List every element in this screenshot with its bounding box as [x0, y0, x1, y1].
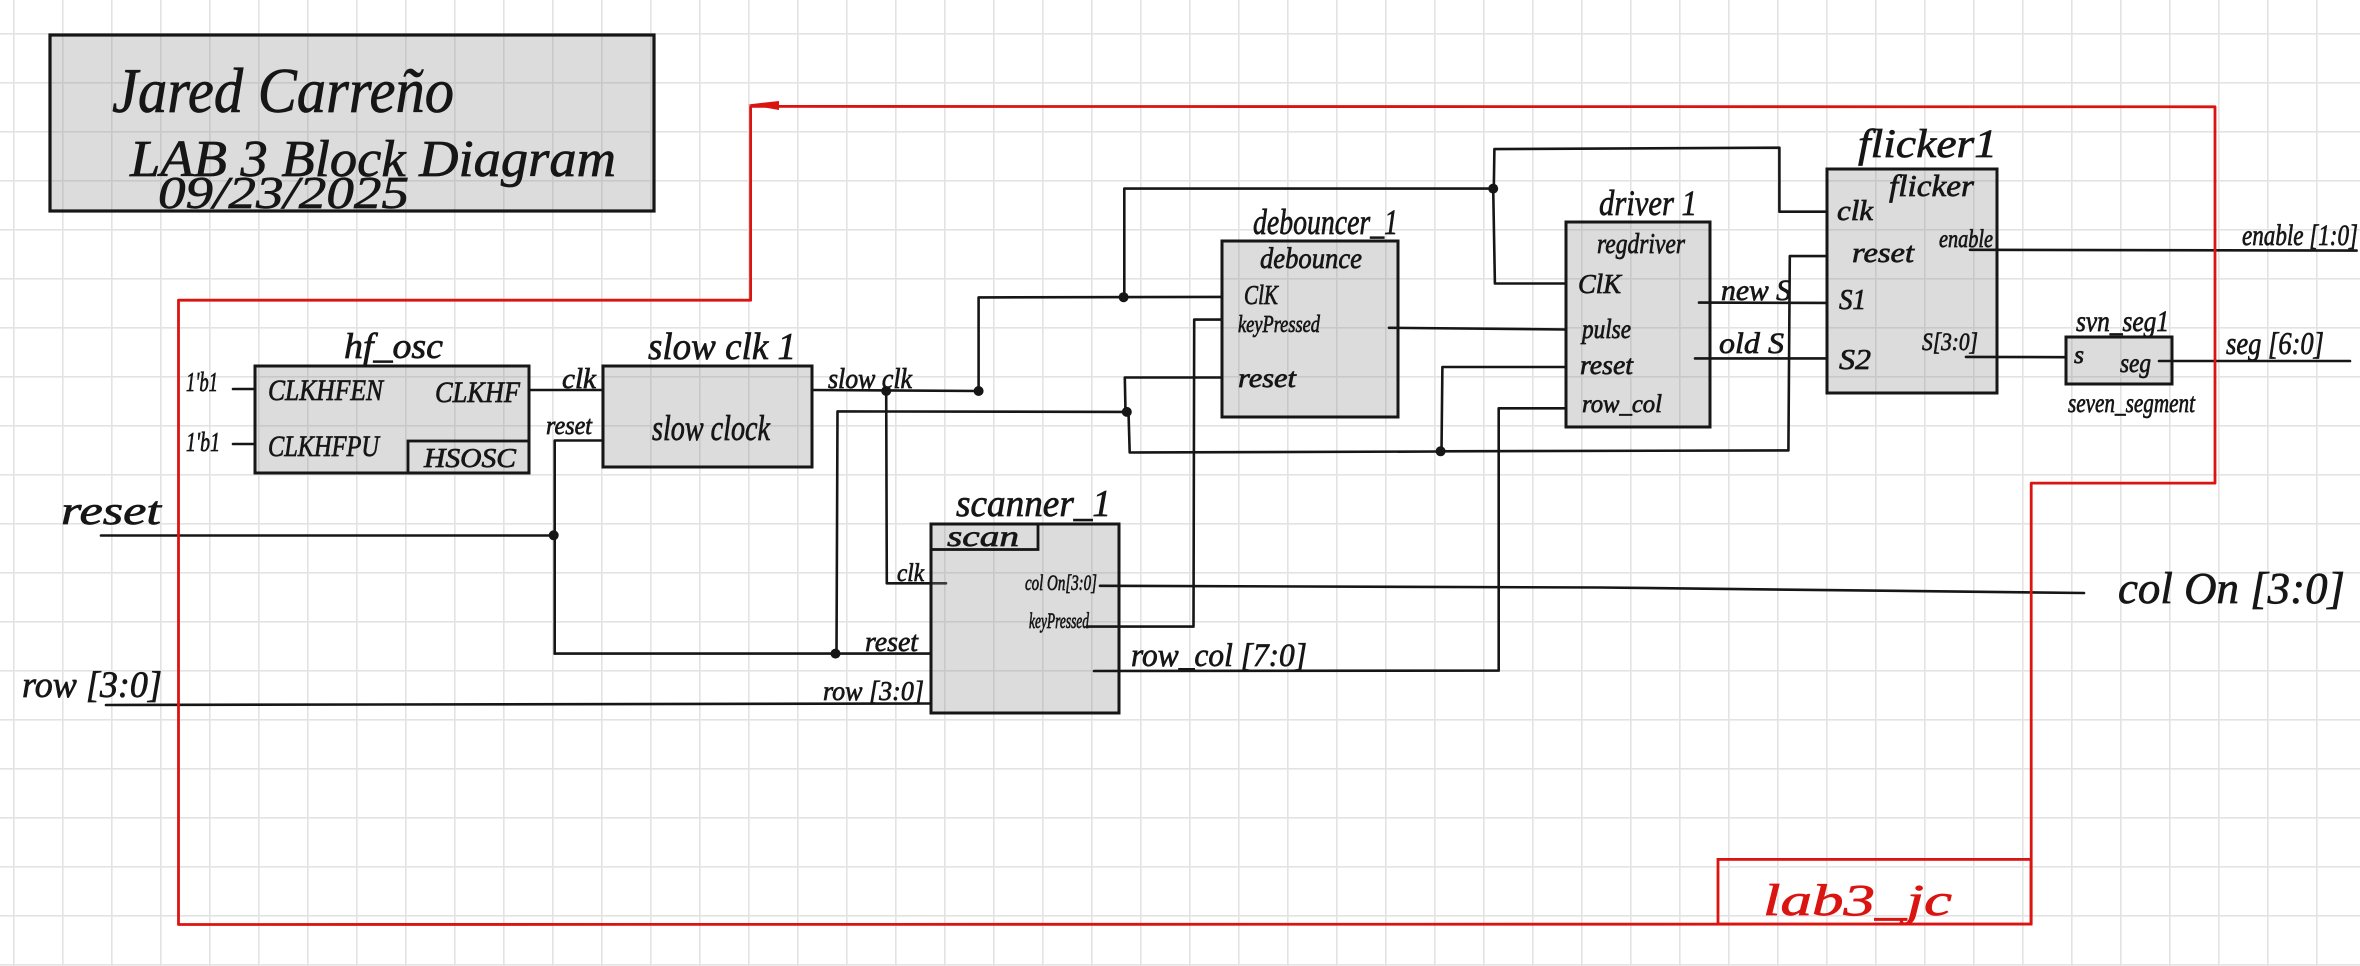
- wire slow clk up to debouncer clk: [979, 297, 1222, 391]
- svg-text:CLKHFPU: CLKHFPU: [268, 430, 381, 463]
- svg-text:clk: clk: [897, 560, 925, 587]
- svg-text:svn_seg1: svn_seg1: [2076, 305, 2169, 338]
- svg-text:old S: old S: [1719, 327, 1784, 360]
- svg-text:debouncer_1: debouncer_1: [1253, 202, 1398, 242]
- svg-text:S1: S1: [1839, 285, 1866, 316]
- wire CLKHFEN input: [233, 388, 255, 391]
- wire new S net: [1699, 301, 1827, 304]
- svg-text:S[3:0]: S[3:0]: [1922, 329, 1978, 356]
- svg-text:ClK: ClK: [1244, 280, 1280, 310]
- svg-text:row [3:0]: row [3:0]: [22, 665, 162, 706]
- wire row[3:0] input: [106, 704, 931, 706]
- junction reset at debouncer branch: [1122, 407, 1132, 417]
- svg-text:clk: clk: [562, 364, 597, 395]
- svg-text:seg: seg: [2120, 348, 2151, 378]
- junction slow clk at debouncer riser: [974, 386, 984, 396]
- svg-text:CLKHF: CLKHF: [435, 376, 521, 409]
- wire row_col net: [1094, 408, 1566, 671]
- svg-text:Jared Carreño: Jared Carreño: [112, 55, 454, 126]
- block scanner_1: [931, 483, 1119, 713]
- block flicker1: [1827, 121, 1997, 393]
- wire clk to driver: [1493, 189, 1566, 284]
- wire keyPressed net: [1087, 320, 1222, 627]
- svg-text:slow clk 1: slow clk 1: [648, 326, 796, 368]
- junction reset at scanner branch: [831, 649, 841, 659]
- svg-text:reset: reset: [61, 488, 162, 533]
- svg-text:slow clock: slow clock: [652, 408, 771, 448]
- wire seg net: [2159, 360, 2350, 363]
- svg-text:hf_osc: hf_osc: [344, 326, 443, 366]
- svg-text:reset: reset: [546, 411, 593, 440]
- red label box lab3_jc: [1718, 859, 2031, 925]
- svg-text:pulse: pulse: [1580, 314, 1631, 344]
- svg-text:1'b1: 1'b1: [186, 427, 220, 457]
- svg-text:s: s: [2074, 342, 2084, 369]
- wire reset to debouncer pin: [1125, 378, 1222, 412]
- wire reset to flicker riser: [1441, 256, 1827, 451]
- svg-text:reset: reset: [1238, 363, 1298, 393]
- svg-text:regdriver: regdriver: [1597, 229, 1685, 260]
- svg-text:slow clk: slow clk: [828, 364, 913, 395]
- wire S[3:0] to svn_seg: [1966, 356, 2066, 359]
- block svn_seg1: [2066, 305, 2196, 418]
- svg-text:lab3_jc: lab3_jc: [1763, 876, 1953, 925]
- wire reset riser to slow_clk: [555, 441, 603, 654]
- red arrowhead: [748, 101, 779, 110]
- svg-text:seg [6:0]: seg [6:0]: [2226, 325, 2324, 361]
- svg-text:reset: reset: [865, 626, 919, 658]
- wire pulse net (debouncer out to driver): [1389, 328, 1566, 330]
- wire reset continues right: [1129, 412, 1441, 453]
- block hf_osc: [255, 326, 529, 473]
- svg-text:scanner_1: scanner_1: [956, 483, 1111, 525]
- svg-text:1'b1: 1'b1: [186, 367, 218, 397]
- svg-text:flicker1: flicker1: [1858, 121, 1997, 166]
- junction reset/slow_clk riser: [549, 530, 559, 540]
- wire reset to driver pin: [1442, 367, 1567, 451]
- wire clk trunk up and right: [1124, 189, 1493, 298]
- svg-text:enable [1:0]: enable [1:0]: [2242, 219, 2358, 252]
- svg-text:seven_segment: seven_segment: [2068, 388, 2196, 418]
- svg-text:ClK: ClK: [1578, 269, 1623, 299]
- junction clk trunk at driver/flicker split: [1488, 184, 1498, 194]
- junction reset at driver branch: [1436, 446, 1446, 456]
- svg-text:HSOSC: HSOSC: [423, 443, 517, 473]
- wire clk net: [529, 389, 603, 392]
- svg-text:reset: reset: [1580, 350, 1635, 380]
- junction slow clk at clk-trunk riser: [1119, 292, 1129, 302]
- svg-text:col On[3:0]: col On[3:0]: [1025, 570, 1097, 595]
- svg-text:CLKHFEN: CLKHFEN: [268, 374, 385, 407]
- svg-text:row [3:0]: row [3:0]: [823, 676, 924, 706]
- wire slow clk from slow_clk_1 output: [812, 390, 979, 391]
- svg-text:keyPressed: keyPressed: [1029, 608, 1090, 633]
- svg-text:row_col: row_col: [1582, 391, 1662, 418]
- svg-text:reset: reset: [1852, 237, 1915, 269]
- svg-text:driver 1: driver 1: [1599, 183, 1697, 223]
- wire slow clk down to scanner clk: [886, 391, 946, 583]
- wire reset input stub: [101, 534, 555, 537]
- wire red module boundary: [179, 106, 2216, 924]
- title box: [50, 35, 654, 218]
- wire colOn net: [1100, 586, 2084, 593]
- svg-text:row_col [7:0]: row_col [7:0]: [1131, 638, 1307, 674]
- wire enable net: [1970, 249, 2357, 252]
- wire reset to scanner: [555, 652, 931, 655]
- svg-text:col On [3:0]: col On [3:0]: [2118, 564, 2345, 613]
- wire CLKHFPU input: [233, 443, 255, 446]
- svg-text:S2: S2: [1839, 344, 1871, 376]
- svg-text:09/23/2025: 09/23/2025: [158, 167, 409, 218]
- block driver_1: [1566, 183, 1710, 427]
- svg-text:clk: clk: [1837, 196, 1874, 227]
- svg-text:debounce: debounce: [1260, 242, 1362, 275]
- block debouncer_1: [1222, 202, 1398, 417]
- wire old S net: [1695, 357, 1827, 360]
- svg-text:flicker: flicker: [1889, 168, 1975, 203]
- wire reset riser to debouncer/driver/flicker: [837, 411, 1127, 653]
- block slow_clk_1: [603, 326, 812, 467]
- wire clk to flicker: [1494, 148, 1827, 212]
- junction slow clk at scanner branch: [881, 386, 891, 396]
- svg-text:keyPressed: keyPressed: [1238, 312, 1321, 338]
- svg-text:new S: new S: [1721, 274, 1791, 307]
